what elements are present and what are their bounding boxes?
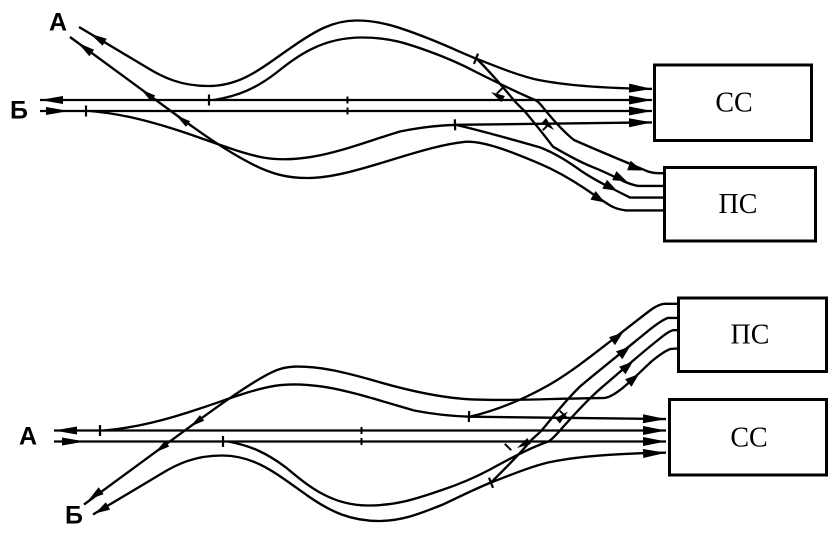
- arrow into PS 1 (bottom): [609, 333, 623, 346]
- arrow into CC 3: [629, 107, 652, 116]
- wire: top line B upper horizontal into CC: [40, 99, 652, 101]
- wire: top line B lower horizontal into CC: [40, 110, 652, 112]
- arrow on D_b: [541, 118, 554, 130]
- wire: bottom line B lower track through crossing, S-curve to PS: [84, 349, 679, 505]
- tick at dip turnout: [454, 119, 457, 130]
- tick at D_a turnout: [474, 54, 478, 64]
- tick at crest turnout (bottom): [468, 411, 471, 422]
- small tick on D_a (bottom): [505, 444, 511, 450]
- wire: top connector from line B over hump, diagonal to PS: [214, 38, 665, 174]
- arrow into PS 3 (bottom): [619, 362, 633, 375]
- arrow into PS 1: [627, 161, 642, 171]
- joint tick on H1 (bottom): [99, 425, 101, 436]
- arrow line A lower inbound (bottom): [62, 438, 85, 446]
- small tick on H2: [347, 108, 349, 115]
- joint tick on H2 (bottom): [222, 436, 224, 447]
- arrow on D_a: [491, 92, 505, 102]
- wire: top connector D_a diagonal to PS: [477, 59, 665, 186]
- small tick on H1: [347, 97, 349, 104]
- wire: bottom connector from line A over valley, diagonal to PS: [228, 330, 679, 505]
- arrow out to A upper: [90, 34, 107, 46]
- arrow on B diag after crossing (bottom): [190, 415, 204, 427]
- box CC top (sorting station): [655, 65, 812, 141]
- arrow out to B lower (bottom): [89, 487, 104, 499]
- small tick on D_a: [497, 87, 503, 93]
- wire: bottom line A upper horizontal into CC: [54, 429, 666, 431]
- small tick on H1 (bottom): [361, 427, 363, 434]
- arrow line B lower inbound: [46, 107, 69, 115]
- arrow into CC 3 (bottom): [643, 426, 666, 435]
- arrow into CC 2: [629, 96, 652, 105]
- small tick on D_b (bottom): [560, 411, 566, 417]
- small tick on D_b: [543, 124, 549, 130]
- small tick on H2 (bottom): [361, 438, 363, 445]
- wire: top connector from line B through dip into CC: [90, 111, 652, 159]
- arrow into CC 4 (bottom): [643, 414, 666, 423]
- wire: top line A lower track through crossing, S-curve to PS: [70, 37, 665, 210]
- arrow on A lower before crossing: [141, 90, 155, 102]
- arrow out to B upper (bottom): [95, 502, 110, 513]
- arrow into CC 4: [629, 118, 652, 127]
- svg-text:Б: Б: [65, 502, 83, 530]
- arrow line B upper outbound: [40, 96, 63, 104]
- wire: top line A upper track, hump bypass into CC: [79, 21, 652, 89]
- arrow into CC 1 (bottom): [643, 449, 666, 458]
- arrow into PS 4 (bottom): [625, 374, 639, 387]
- box CC bottom (sorting station): [670, 400, 827, 476]
- box PS bottom (passenger station): [679, 298, 827, 372]
- tick at D_a turnout (bottom): [489, 478, 493, 488]
- wire: top dip branch diagonal to PS: [456, 125, 665, 198]
- svg-text:ПС: ПС: [731, 320, 770, 351]
- wire: bottom crest branch diagonal to PS: [470, 304, 679, 417]
- arrow on A lower after crossing: [176, 115, 190, 127]
- wire: bottom line B upper track, valley bypass into CC: [93, 453, 666, 521]
- box PS top (passenger station): [665, 168, 816, 242]
- joint tick on H2: [85, 106, 87, 117]
- arrow into PS 3: [602, 180, 617, 191]
- joint tick on H1: [208, 95, 210, 106]
- svg-text:ПС: ПС: [719, 189, 758, 220]
- arrow into PS 2: [612, 171, 627, 181]
- svg-text:А: А: [49, 9, 67, 37]
- arrow into PS 4: [590, 191, 605, 203]
- arrow line A upper outbound (bottom): [54, 427, 77, 435]
- wire: bottom connector D_a diagonal to PS: [491, 318, 679, 483]
- wire: bottom connector from line A through crest into CC: [104, 384, 666, 430]
- arrow out to A lower: [78, 43, 94, 56]
- arrow on D_a (bottom): [517, 438, 531, 448]
- arrow into CC 2 (bottom): [643, 437, 666, 446]
- wire: bottom line A lower horizontal into CC: [54, 440, 666, 442]
- svg-text:СС: СС: [715, 88, 752, 119]
- arrow on B diag before crossing (bottom): [155, 441, 169, 453]
- svg-text:Б: Б: [10, 97, 28, 125]
- arrow on D_b (bottom): [555, 412, 568, 424]
- svg-text:СС: СС: [730, 423, 767, 454]
- svg-text:А: А: [19, 423, 37, 451]
- arrow into PS 2 (bottom): [616, 347, 630, 360]
- arrow into CC 1: [629, 84, 652, 93]
